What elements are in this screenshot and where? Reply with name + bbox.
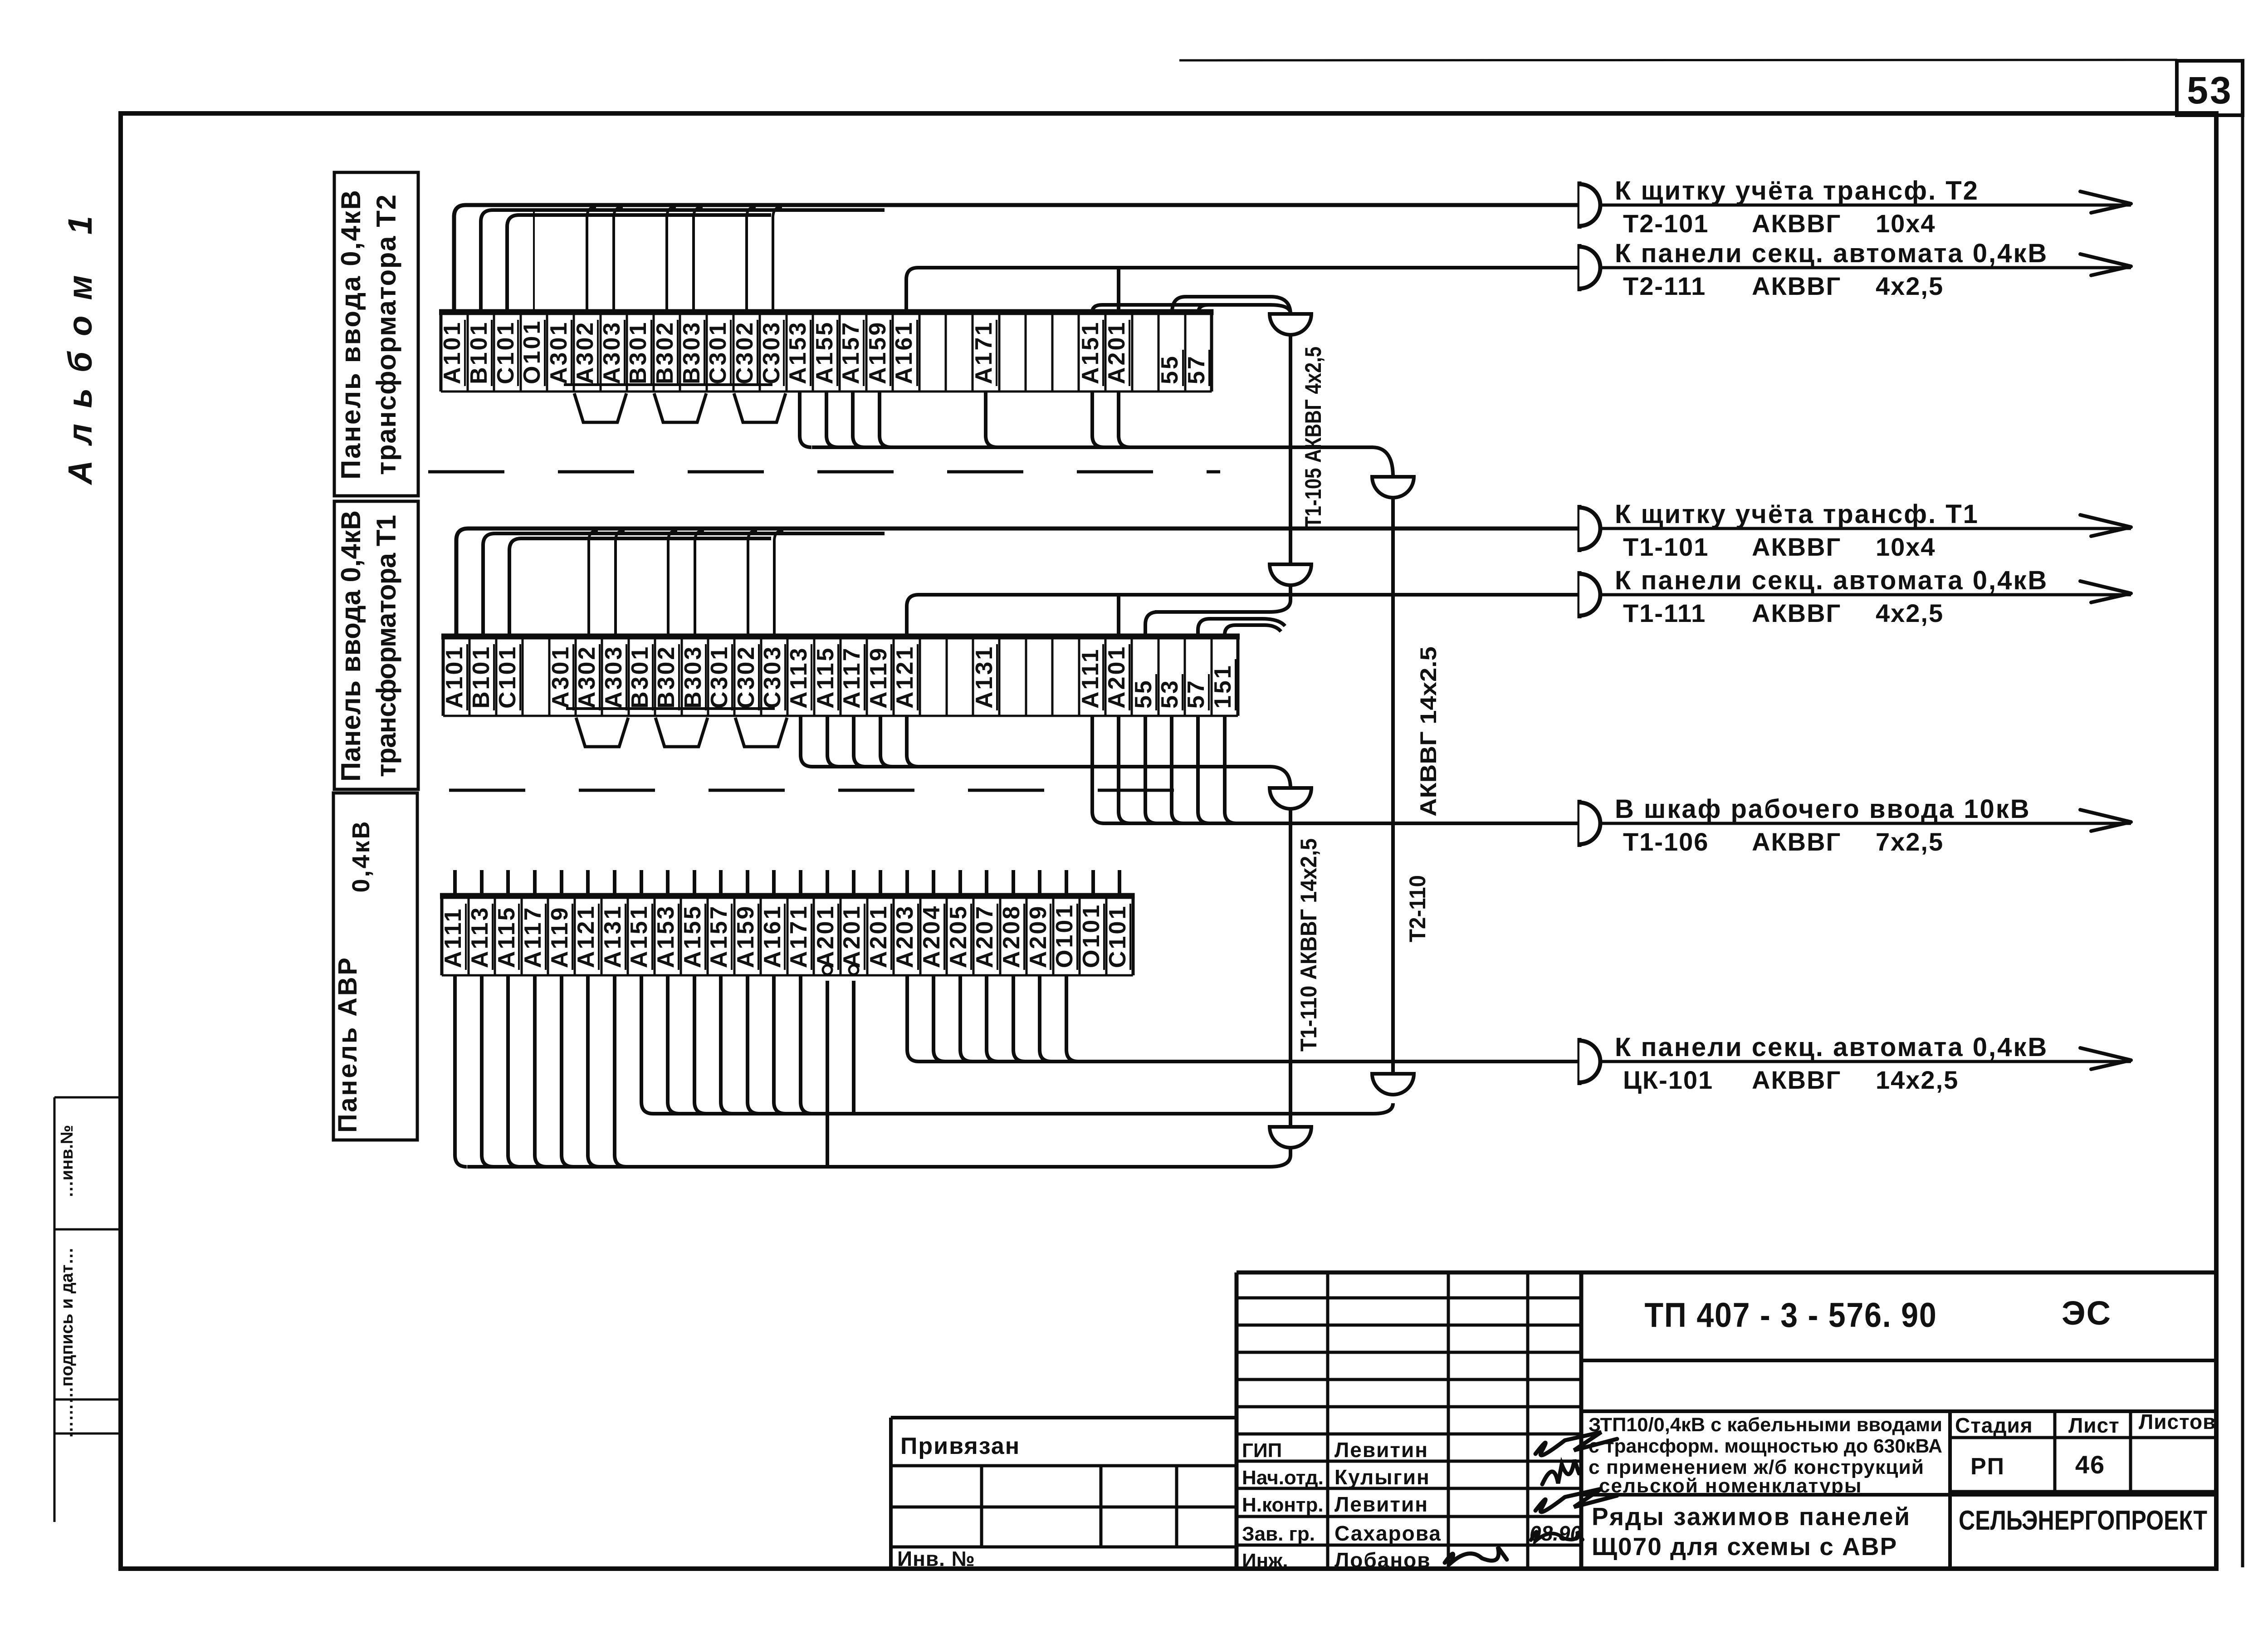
disconnect circle at X3 cell 14 bbox=[823, 965, 832, 974]
wire X3:А131 down to cable T1-110 bus bbox=[615, 975, 626, 1167]
stub X3 cell 23 bbox=[1065, 870, 1068, 896]
svg-text:РП: РП bbox=[1970, 1453, 2005, 1480]
svg-text:14х2,5: 14х2,5 bbox=[1876, 1066, 1959, 1094]
wire X2:151 down to bus T1-106 bbox=[1225, 716, 1237, 823]
svg-text:О101: О101 bbox=[1051, 903, 1078, 968]
svg-text:Лобанов: Лобанов bbox=[1334, 1548, 1431, 1572]
svg-text:Т2-110: Т2-110 bbox=[1405, 875, 1430, 942]
svg-text:4х2,5: 4х2,5 bbox=[1876, 272, 1944, 300]
arrowhead W1 bbox=[2080, 191, 2131, 213]
cable symbol W5 bbox=[1578, 800, 1582, 847]
stub X3 cell 15 bbox=[852, 870, 855, 896]
svg-text:55: 55 bbox=[1130, 679, 1157, 709]
wire X1:B101 to bus T2-101 bbox=[481, 210, 885, 312]
wire X2:А119 down to cable T1-110 bbox=[880, 716, 892, 767]
svg-text:0,4кВ: 0,4кВ bbox=[347, 819, 375, 892]
wire X3:А111 down to cable T1-110 bus bbox=[455, 975, 467, 1167]
wire X2:В302 riser to bus T1-101 bbox=[668, 530, 677, 636]
stub X3 cell 4 bbox=[560, 870, 563, 896]
wire X1:А155 down to bus T2-110 bbox=[826, 391, 838, 447]
wire X3:А115 down to cable T1-110 bus bbox=[508, 975, 520, 1167]
wire X2:A201 riser to bus T1-111 bbox=[1117, 595, 1120, 636]
cable T1-110 tail to X3 bus bbox=[1270, 1148, 1290, 1167]
cable T1-110 vertical bbox=[1289, 809, 1292, 1127]
svg-text:А151: А151 bbox=[626, 905, 652, 968]
svg-text:ЭС: ЭС bbox=[2062, 1294, 2112, 1332]
svg-text:Т1-110 АКВВГ 14х2,5: Т1-110 АКВВГ 14х2,5 bbox=[1296, 838, 1321, 1052]
wire X1:A161 to bus T2-111 bbox=[906, 268, 1579, 312]
wire X1:A101 to bus T2-101 bbox=[454, 205, 1579, 312]
arrow line W4 bbox=[1600, 593, 2131, 597]
svg-text:Левитин: Левитин bbox=[1334, 1492, 1428, 1516]
arrow line W2 bbox=[1600, 266, 2131, 269]
svg-text:А153: А153 bbox=[653, 905, 679, 968]
svg-text:В шкаф рабочего ввода 10кВ: В шкаф рабочего ввода 10кВ bbox=[1615, 794, 2031, 824]
stub X3 cell 13 bbox=[799, 870, 802, 896]
svg-text:А161: А161 bbox=[759, 905, 786, 968]
svg-text:А159: А159 bbox=[865, 321, 891, 384]
stub X3 cell 20 bbox=[985, 870, 988, 896]
svg-text:Щ070 для схемы с АВР: Щ070 для схемы с АВР bbox=[1592, 1532, 1897, 1561]
stub X3 cell 9 bbox=[693, 870, 696, 896]
svg-text:ГИП: ГИП bbox=[1242, 1439, 1282, 1462]
title block bbox=[1237, 1272, 2216, 1569]
svg-text:К панели секц. автомата 0,4кВ: К панели секц. автомата 0,4кВ bbox=[1615, 566, 2048, 595]
svg-text:А151: А151 bbox=[1077, 321, 1104, 384]
svg-text:А121: А121 bbox=[573, 905, 599, 968]
svg-text:с трансформ. мощностью до 630к: с трансформ. мощностью до 630кВА bbox=[1589, 1435, 1942, 1457]
bus T1-106 horizontal bbox=[1104, 822, 1579, 825]
wire X1:O101 riser bbox=[533, 209, 535, 312]
svg-text:С302: С302 bbox=[733, 645, 759, 709]
svg-text:Стадия: Стадия bbox=[1955, 1414, 2033, 1437]
svg-text:АКВВГ: АКВВГ bbox=[1752, 599, 1841, 627]
stub X3 cell 3 bbox=[533, 870, 537, 896]
wire X3:А153 down to cable T2-110 bus bbox=[668, 975, 679, 1114]
svg-text:А161: А161 bbox=[891, 321, 917, 384]
wire X2:А302 riser to bus T1-101 bbox=[589, 530, 598, 636]
svg-text:………подпись и дат…: ………подпись и дат… bbox=[58, 1248, 77, 1438]
wire X1:С303 riser to bus T2-101 bbox=[773, 207, 782, 312]
svg-text:10х4: 10х4 bbox=[1876, 533, 1936, 561]
wire X3:А208 down to bus CK-101 bbox=[1013, 975, 1025, 1062]
cable coupler C1b cable T1-105 bottom bbox=[1270, 564, 1311, 585]
terminal strip X2 bbox=[441, 636, 1240, 716]
jumper X2 cells 11-12 bbox=[735, 718, 787, 747]
stub X3 cell 21 bbox=[1012, 870, 1015, 896]
svg-text:4х2,5: 4х2,5 bbox=[1876, 599, 1944, 627]
svg-text:А113: А113 bbox=[786, 646, 812, 709]
wire X3:А204 down to bus CK-101 bbox=[934, 975, 945, 1062]
svg-text:46: 46 bbox=[2075, 1450, 2105, 1479]
wire X2:С302 riser to bus T1-101 bbox=[748, 530, 757, 636]
svg-text:А155: А155 bbox=[679, 905, 706, 968]
svg-text:А131: А131 bbox=[971, 645, 997, 709]
signatures bbox=[1535, 1432, 1617, 1455]
terminal strip X1 bbox=[439, 312, 1213, 391]
jumper X1 cells 8-9 bbox=[654, 393, 706, 422]
arrow line W6 bbox=[1600, 1060, 2131, 1063]
stub X3 cell 8 bbox=[666, 870, 670, 896]
wire X2:A101 to bus T1-101 bbox=[456, 528, 1579, 636]
shorting bar X2 bbox=[566, 707, 775, 710]
wire X3:A201a down to cable T1-110 bus bbox=[826, 981, 829, 1167]
svg-text:В303: В303 bbox=[680, 645, 706, 709]
svg-text:7х2,5: 7х2,5 bbox=[1876, 827, 1944, 856]
cable symbol W1 bbox=[1578, 181, 1582, 229]
svg-text:С301: С301 bbox=[705, 321, 731, 384]
svg-text:А131: А131 bbox=[600, 905, 626, 968]
stub X3 cell 19 bbox=[958, 870, 962, 896]
svg-text:А153: А153 bbox=[785, 321, 811, 384]
wire X3:А151 down to cable T2-110 bus bbox=[641, 975, 653, 1114]
jumper X2 cells 5-6 bbox=[576, 718, 628, 747]
wire X2:C101 to bus T1-101 bbox=[509, 538, 771, 636]
svg-text:А111: А111 bbox=[1077, 647, 1104, 709]
svg-text:А208: А208 bbox=[998, 905, 1025, 968]
cable coupler C2 cable 14x2.5 down bbox=[1372, 477, 1414, 498]
svg-text:А201: А201 bbox=[839, 905, 865, 968]
bus cable T1-110 horizontal bbox=[812, 767, 1290, 788]
svg-text:В101: В101 bbox=[468, 645, 494, 709]
svg-text:57: 57 bbox=[1183, 354, 1210, 384]
svg-text:Т2-101: Т2-101 bbox=[1623, 209, 1709, 238]
svg-text:53: 53 bbox=[1157, 679, 1183, 709]
svg-text:Панель ввода 0,4кВ: Панель ввода 0,4кВ bbox=[336, 509, 366, 782]
stub X3 cell 17 bbox=[905, 870, 909, 896]
wire X2:А115 down to cable T1-110 bbox=[827, 716, 839, 767]
arrowhead W5 bbox=[2080, 810, 2131, 831]
arrowhead W4 bbox=[2080, 581, 2131, 602]
svg-text:СЕЛЬЭНЕРГОПРОЕКТ: СЕЛЬЭНЕРГОПРОЕКТ bbox=[1959, 1505, 2207, 1536]
svg-text:К панели секц. автомата 0,4кВ: К панели секц. автомата 0,4кВ bbox=[1615, 1032, 2048, 1062]
svg-text:С302: С302 bbox=[732, 321, 758, 384]
wire X1:55 to cable T1-105 bus bbox=[1172, 297, 1290, 313]
sheet number box 53 bbox=[2177, 61, 2243, 115]
svg-text:Привязан: Привязан bbox=[900, 1433, 1020, 1459]
jumper X2 cells 8-9 bbox=[655, 718, 708, 747]
svg-text:Т1-111: Т1-111 bbox=[1623, 599, 1706, 627]
wire X1:A151 to cable T1-105 bus bbox=[1092, 305, 1290, 313]
svg-text:Н.контр.: Н.контр. bbox=[1242, 1494, 1324, 1516]
svg-text:Нач.отд.: Нач.отд. bbox=[1242, 1467, 1324, 1489]
svg-text:А101: А101 bbox=[439, 321, 465, 384]
svg-text:К щитку учёта трансф. Т1: К щитку учёта трансф. Т1 bbox=[1615, 499, 1979, 529]
svg-text:10х4: 10х4 bbox=[1876, 209, 1936, 238]
svg-text:Лист: Лист bbox=[2068, 1414, 2120, 1437]
svg-text:55: 55 bbox=[1157, 354, 1183, 384]
margin tick row 1 bbox=[54, 1096, 121, 1099]
svg-text:А209: А209 bbox=[1025, 905, 1051, 968]
svg-text:С303: С303 bbox=[758, 321, 785, 384]
wire X1:57 to cable T1-105 bus bbox=[1198, 305, 1208, 312]
stub X3 cell 12 bbox=[772, 870, 776, 896]
svg-text:А302: А302 bbox=[572, 321, 598, 384]
svg-text:Сахарова: Сахарова bbox=[1334, 1521, 1442, 1545]
arrow line W5 bbox=[1600, 822, 2131, 825]
stub X3 cell 18 bbox=[932, 870, 935, 896]
svg-text:А155: А155 bbox=[811, 321, 838, 384]
wire X3:А203 down to bus CK-101 bbox=[907, 975, 919, 1062]
svg-text:Альбом 1: Альбом 1 bbox=[61, 212, 99, 485]
wire X2:А111 down to bus T1-106 bbox=[1092, 716, 1104, 823]
wire X1:А201 down to bus T2-110 bbox=[1119, 391, 1130, 447]
wire X3:А119 down to cable T1-110 bus bbox=[562, 975, 573, 1167]
stub X3 cell 16 bbox=[879, 870, 882, 896]
stub X3 cell 5 bbox=[586, 870, 590, 896]
svg-text:А113: А113 bbox=[467, 906, 493, 968]
wire X2:57 down to bus T1-106 bbox=[1198, 716, 1210, 823]
svg-text:Т1-106: Т1-106 bbox=[1623, 827, 1709, 856]
wire X1:А151 down to bus T2-110 bbox=[1092, 391, 1104, 447]
svg-text:Кулыгин: Кулыгин bbox=[1334, 1465, 1430, 1489]
svg-text:В302: В302 bbox=[653, 645, 679, 709]
cable T1-105 vertical bbox=[1289, 335, 1292, 564]
wire X3:А159 down to cable T2-110 bus bbox=[748, 975, 759, 1114]
stub X3 cell 0 bbox=[453, 870, 457, 896]
svg-text:Инж.: Инж. bbox=[1242, 1550, 1288, 1572]
wire X3:А205 down to bus CK-101 bbox=[960, 975, 972, 1062]
stub X3 cell 11 bbox=[746, 870, 749, 896]
svg-text:А201: А201 bbox=[812, 905, 839, 968]
svg-text:Инв. №: Инв. № bbox=[897, 1547, 975, 1570]
svg-text:АКВВГ: АКВВГ bbox=[1752, 272, 1841, 300]
wire X1:А153 down to bus T2-110 bbox=[800, 391, 811, 447]
cable coupler C3 cable T1-110 bbox=[1270, 788, 1311, 809]
stub X3 cell 22 bbox=[1038, 870, 1041, 896]
svg-text:А171: А171 bbox=[786, 905, 812, 968]
svg-text:Панель ввода 0,4кВ: Панель ввода 0,4кВ bbox=[336, 189, 366, 479]
wire X3:А113 down to cable T1-110 bus bbox=[482, 975, 494, 1167]
wire X1:С302 riser to bus T2-101 bbox=[747, 207, 756, 312]
svg-text:О101: О101 bbox=[1078, 903, 1105, 968]
wire X3:А157 down to cable T2-110 bus bbox=[721, 975, 733, 1114]
panel box T2 bbox=[334, 172, 418, 496]
svg-text:В302: В302 bbox=[652, 321, 678, 384]
wire X1:В302 riser to bus T2-101 bbox=[667, 207, 676, 312]
cable symbol W3 bbox=[1578, 505, 1582, 552]
wire X2:А303 riser to bus T1-101 bbox=[616, 530, 625, 636]
arrowhead W6 bbox=[2080, 1048, 2131, 1069]
arrowhead W3 bbox=[2080, 515, 2131, 536]
svg-text:Листов: Листов bbox=[2139, 1410, 2216, 1433]
svg-text:А301: А301 bbox=[547, 645, 574, 709]
dashed separator 2 bbox=[449, 789, 1225, 792]
svg-text:А119: А119 bbox=[547, 906, 573, 968]
bus T2-110 horizontal bbox=[812, 447, 1393, 477]
attachment zone bbox=[891, 1418, 1237, 1569]
terminal strip X3 bbox=[440, 896, 1135, 975]
dashed separator 1 bbox=[428, 470, 1220, 474]
wire X1:А159 down to bus T2-110 bbox=[880, 391, 891, 447]
svg-text:Т1-101: Т1-101 bbox=[1623, 533, 1709, 561]
svg-text:А303: А303 bbox=[599, 321, 625, 384]
svg-text:…инв.№: …инв.№ bbox=[58, 1125, 77, 1198]
cable coupler C4 cable T2-110 bottom bbox=[1372, 1074, 1414, 1095]
cable symbol W6 bbox=[1578, 1038, 1582, 1085]
wire X2:B101 to bus T1-101 bbox=[483, 533, 885, 636]
cable T1-105 tail to X2 bbox=[1155, 585, 1290, 612]
svg-text:С101: С101 bbox=[493, 321, 519, 384]
shorting bar X1 bbox=[564, 383, 772, 386]
panel box T1 bbox=[334, 501, 418, 789]
wire X3:А155 down to cable T2-110 bus bbox=[694, 975, 706, 1114]
svg-text:151: 151 bbox=[1210, 664, 1236, 709]
svg-text:АКВВГ: АКВВГ bbox=[1752, 533, 1841, 561]
wire X1:А157 down to bus T2-110 bbox=[853, 391, 865, 447]
cable 14x2.5 vertical bbox=[1391, 498, 1395, 1074]
svg-text:АКВВГ 14х2.5: АКВВГ 14х2.5 bbox=[1416, 646, 1441, 817]
wire X1:В303 riser to bus T2-101 bbox=[694, 207, 703, 312]
wire X3:О101 down to bus CK-101 bbox=[1066, 975, 1078, 1062]
svg-text:ТП 407 - 3 - 576. 90: ТП 407 - 3 - 576. 90 bbox=[1645, 1296, 1937, 1335]
svg-text:А201: А201 bbox=[865, 905, 892, 968]
svg-text:С301: С301 bbox=[706, 645, 733, 709]
cable coupler C3b cable T1-110 bottom bbox=[1270, 1127, 1311, 1148]
svg-text:С303: С303 bbox=[759, 645, 786, 709]
svg-text:А115: А115 bbox=[494, 906, 520, 968]
arrow line W1 bbox=[1600, 204, 2131, 207]
svg-text:А111: А111 bbox=[440, 907, 466, 968]
wire X2:53 down to bus T1-106 bbox=[1172, 716, 1183, 823]
svg-text:О101: О101 bbox=[519, 319, 545, 384]
svg-text:К панели секц. автомата 0,4кВ: К панели секц. автомата 0,4кВ bbox=[1615, 239, 2048, 268]
svg-text:А301: А301 bbox=[546, 321, 572, 384]
svg-text:53: 53 bbox=[2187, 69, 2233, 112]
jumper X1 cells 11-12 bbox=[734, 393, 786, 422]
svg-text:А101: А101 bbox=[441, 645, 468, 709]
svg-text:Панель АВР: Панель АВР bbox=[333, 956, 362, 1133]
svg-text:А302: А302 bbox=[574, 645, 600, 709]
cable coupler C1 cable T1-105 bbox=[1270, 314, 1311, 335]
svg-text:А201: А201 bbox=[1104, 645, 1130, 709]
stub X3 cell 2 bbox=[506, 870, 510, 896]
bus CK-101 horizontal bbox=[919, 1060, 1579, 1063]
bus cable T2-110 horizontal bbox=[653, 1103, 1393, 1114]
wire X3:А161 down to cable T2-110 bus bbox=[774, 975, 786, 1114]
svg-text:К щитку учёта трансф. Т2: К щитку учёта трансф. Т2 bbox=[1615, 176, 1979, 205]
wire X3:А209 down to bus CK-101 bbox=[1040, 975, 1051, 1062]
svg-text:А119: А119 bbox=[865, 646, 892, 709]
stub X3 cell 25 bbox=[1118, 870, 1121, 896]
svg-text:А117: А117 bbox=[839, 646, 865, 709]
wire X1:А171 down to bus T2-110 bbox=[986, 391, 997, 447]
svg-text:С101: С101 bbox=[1105, 905, 1131, 968]
wire X2:В303 riser to bus T1-101 bbox=[695, 530, 704, 636]
wire X2:А201 down to bus T1-106 bbox=[1119, 716, 1130, 823]
svg-text:А204: А204 bbox=[919, 905, 945, 968]
svg-text:В101: В101 bbox=[466, 321, 492, 384]
stub X3 cell 7 bbox=[640, 870, 643, 896]
stub X3 cell 1 bbox=[480, 870, 484, 896]
svg-text:АКВВГ: АКВВГ bbox=[1752, 1066, 1841, 1094]
svg-text:В301: В301 bbox=[625, 321, 651, 384]
svg-text:А205: А205 bbox=[945, 905, 972, 968]
svg-text:А207: А207 bbox=[972, 905, 998, 968]
wire X2:55 to T1-105 tail bbox=[1145, 612, 1158, 636]
margin tick row 4 bbox=[54, 1433, 121, 1435]
svg-text:А115: А115 bbox=[812, 646, 839, 709]
cable symbol W4 bbox=[1578, 571, 1582, 618]
stub X3 cell 6 bbox=[613, 870, 616, 896]
arrow line W3 bbox=[1600, 527, 2131, 530]
svg-text:ЦК-101: ЦК-101 bbox=[1623, 1066, 1713, 1094]
wire X3:А117 down to cable T1-110 bus bbox=[535, 975, 547, 1167]
svg-text:А157: А157 bbox=[706, 905, 732, 968]
wire X3:А171 down to cable T2-110 bus bbox=[801, 975, 812, 1114]
svg-text:трансформатора Т2: трансформатора Т2 bbox=[371, 194, 401, 475]
svg-text:Ряды зажимов панелей: Ряды зажимов панелей bbox=[1592, 1502, 1911, 1531]
disconnect circle at X3 cell 15 bbox=[849, 965, 858, 974]
left margin column line bbox=[54, 1097, 56, 1522]
jumper X1 cells 5-6 bbox=[574, 393, 626, 422]
wire X3:А121 down to cable T1-110 bus bbox=[588, 975, 600, 1167]
svg-text:трансформатора Т1: трансформатора Т1 bbox=[371, 514, 401, 777]
svg-text:В301: В301 bbox=[627, 645, 653, 709]
svg-text:57: 57 bbox=[1183, 679, 1209, 709]
wire X2:С303 riser to bus T1-101 bbox=[774, 530, 783, 636]
svg-text:Левитин: Левитин bbox=[1334, 1438, 1428, 1462]
bus X3 group C bbox=[467, 1165, 1270, 1169]
svg-text:АКВВГ: АКВВГ bbox=[1752, 827, 1841, 856]
svg-text:С101: С101 bbox=[494, 645, 521, 709]
wire X2:151 to T1-105 tail bbox=[1225, 625, 1281, 636]
wire X1:А303 riser to bus T2-101 bbox=[614, 207, 623, 312]
wire X1:C101 to bus T2-101 bbox=[507, 215, 771, 312]
svg-text:Т1-105 АКВВГ 4х2,5: Т1-105 АКВВГ 4х2,5 bbox=[1300, 347, 1326, 528]
svg-text:А121: А121 bbox=[892, 645, 918, 709]
svg-text:А159: А159 bbox=[733, 905, 759, 968]
svg-text:В303: В303 bbox=[679, 321, 705, 384]
wire X3:A201b down to cable T2-110 bus bbox=[852, 981, 855, 1114]
svg-text:А203: А203 bbox=[892, 905, 918, 968]
svg-text:сельской номенклатуры: сельской номенклатуры bbox=[1599, 1475, 1862, 1497]
svg-text:Т2-111: Т2-111 bbox=[1623, 272, 1706, 300]
svg-text:А171: А171 bbox=[971, 321, 997, 384]
panel box AVR bbox=[333, 793, 417, 1140]
margin tick row 2 bbox=[54, 1228, 121, 1231]
wire X2:A121 to bus T1-111 bbox=[907, 595, 1579, 636]
stub X3 cell 24 bbox=[1091, 870, 1095, 896]
svg-text:А117: А117 bbox=[520, 906, 546, 968]
svg-text:А303: А303 bbox=[601, 645, 627, 709]
wire X1:А302 riser to bus T2-101 bbox=[587, 207, 596, 312]
wire X3:А207 down to bus CK-101 bbox=[987, 975, 998, 1062]
wire X2:А113 down to cable T1-110 bbox=[801, 716, 812, 767]
svg-text:Зав. гр.: Зав. гр. bbox=[1242, 1523, 1315, 1545]
margin tick row 3 bbox=[54, 1399, 121, 1401]
wire X2:А117 down to cable T1-110 bbox=[854, 716, 865, 767]
wire X1:A201 riser to bus T2-111 bbox=[1117, 268, 1120, 312]
stub X3 cell 10 bbox=[719, 870, 723, 896]
svg-text:АКВВГ: АКВВГ bbox=[1752, 209, 1841, 238]
svg-text:А201: А201 bbox=[1104, 321, 1130, 384]
wire X2:57 to T1-105 tail bbox=[1198, 619, 1285, 636]
svg-text:ЗТП10/0,4кВ с кабельными ввода: ЗТП10/0,4кВ с кабельными вводами bbox=[1589, 1414, 1942, 1436]
stub X3 cell 14 bbox=[826, 870, 829, 896]
cable symbol W2 bbox=[1578, 244, 1582, 291]
wire X2:А121 down to cable T1-110 bbox=[907, 716, 919, 767]
arrowhead W2 bbox=[2080, 254, 2131, 275]
svg-text:А157: А157 bbox=[838, 321, 864, 384]
wire X2:55 down to bus T1-106 bbox=[1145, 716, 1157, 823]
